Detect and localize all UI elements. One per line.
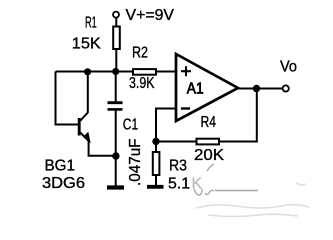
svg-text:3DG6: 3DG6 (42, 175, 85, 192)
svg-text:3.9K: 3.9K (129, 75, 155, 92)
ground under R3 (147, 185, 164, 189)
node junction output (253, 85, 260, 92)
wire output (237, 88, 283, 90)
op-amp A1 (176, 54, 238, 121)
resistor R1 (113, 27, 120, 50)
wire C1 bottom lead (115, 111, 117, 186)
transistor Q1 emitter arrow (84, 133, 90, 142)
resistor R3 (153, 152, 160, 175)
svg-text:V+=9V: V+=9V (126, 7, 175, 24)
wire C1 top lead (115, 72, 117, 102)
wire (115, 18, 117, 27)
wire main horizontal rail (56, 71, 134, 73)
svg-text:C1: C1 (123, 117, 138, 134)
wire left branch down to base (56, 72, 79, 125)
wire node to R4 (156, 141, 197, 143)
transistor Q1 base bar (78, 118, 81, 136)
svg-text:20K: 20K (194, 147, 224, 164)
wire inverting input (156, 109, 176, 142)
capacitor C1 top plate (108, 101, 123, 104)
wire R1 bottom lead (115, 49, 117, 72)
svg-text:BG1: BG1 (45, 157, 76, 174)
wire R4 to output (219, 89, 257, 142)
resistor R3 top lead (155, 142, 157, 153)
ground under C1 (107, 185, 124, 189)
node junction emitter/C1 (112, 152, 119, 159)
svg-text:R4: R4 (201, 114, 217, 131)
svg-text:A1: A1 (187, 81, 204, 98)
capacitor C1 bottom plate (108, 108, 123, 111)
resistor R4 (197, 139, 220, 145)
transistor Q1 collector (80, 72, 88, 121)
svg-text:K: K (192, 175, 203, 192)
resistor R2 (133, 69, 156, 75)
svg-text:5.1: 5.1 (168, 175, 190, 192)
svg-text:.047uF: .047uF (127, 138, 144, 186)
wire R3 bottom lead (155, 175, 157, 185)
node junction collector rail (84, 68, 91, 75)
transistor Q1 emitter (80, 133, 115, 156)
op-amp plus sign (181, 66, 191, 76)
node junction R1/C1 (112, 68, 119, 75)
svg-text:R2: R2 (132, 45, 148, 62)
terminal V+ (113, 12, 119, 18)
watermark scribbles (194, 164, 258, 195)
wire R2 to op-amp (156, 71, 176, 73)
op-amp minus sign (181, 107, 190, 109)
svg-text:R1: R1 (85, 15, 97, 32)
svg-text:R3: R3 (169, 157, 187, 174)
terminal Vo (283, 85, 289, 91)
svg-text:15K: 15K (72, 35, 101, 52)
node junction inverting (152, 138, 159, 145)
svg-text:Vo: Vo (280, 59, 297, 76)
